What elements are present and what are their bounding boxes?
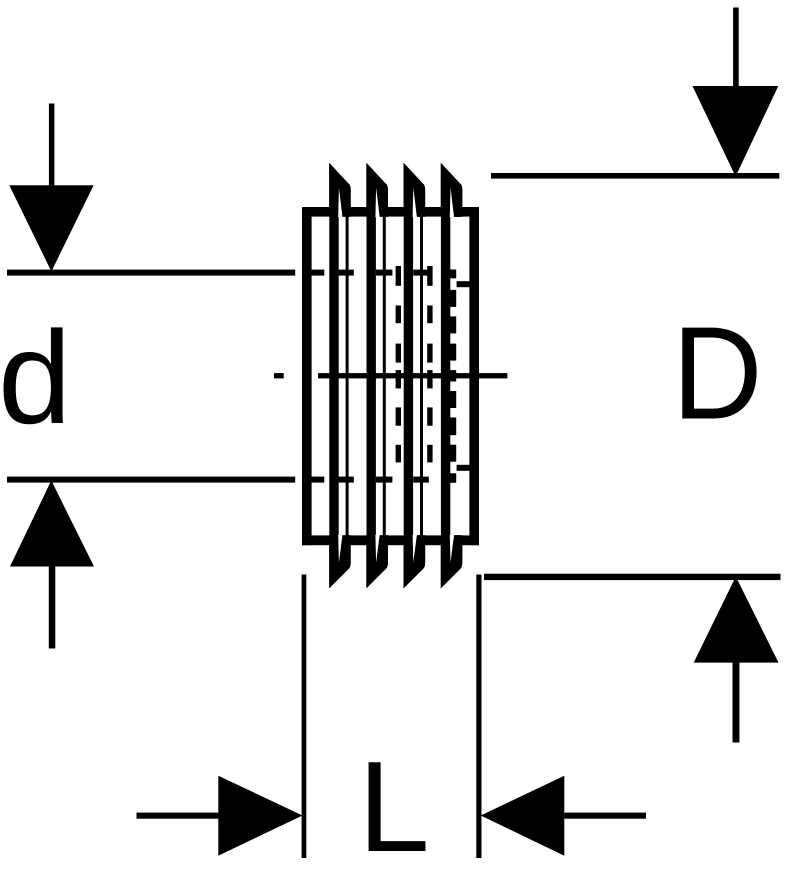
d line ticks top row (311, 270, 324, 276)
arrow d top (down) (49, 104, 55, 187)
arrow L right (left-pointing) (481, 776, 565, 856)
thread fin 2 bottom (366, 535, 388, 588)
thread crest bar 3 (404, 216, 413, 536)
thread fin 3 bottom (404, 535, 426, 588)
extension line L left (302, 575, 307, 859)
svg-text:L: L (358, 735, 430, 868)
internal thread step tick bottom right (457, 465, 470, 471)
arrow D top (down) (733, 8, 739, 88)
dimension line d bottom (7, 477, 295, 483)
thread crest bar 4 (441, 216, 450, 536)
thread fin 1 bottom (329, 535, 351, 588)
hidden internal thread line B (427, 266, 432, 286)
center line dash (274, 373, 284, 378)
internal thread step tick top right (457, 281, 470, 287)
thread root line 4 top segment (456, 196, 459, 217)
svg-text:d: d (0, 304, 71, 451)
thread root line 2 (383, 196, 386, 557)
hidden internal thread line C (450, 270, 456, 279)
arrow d bottom (up) (10, 481, 94, 567)
thread fin 2 top (366, 163, 388, 217)
thread crest bar 2 (367, 216, 376, 536)
thread fin 1 top (329, 163, 351, 217)
extension line L right (476, 575, 481, 859)
thread fin 3 top (404, 163, 426, 217)
dimension line d top (7, 270, 295, 276)
thread fin 4 bottom (441, 535, 463, 588)
svg-text:D: D (672, 300, 763, 447)
dimension line D bottom (484, 574, 781, 580)
thread root line 1 (346, 196, 349, 557)
dimension line D top (491, 173, 779, 179)
center line (318, 373, 507, 378)
thread root line 3 (420, 196, 423, 557)
hidden internal thread line A (396, 266, 401, 286)
arrow L left (right-pointing) (137, 813, 219, 819)
d line ticks bottom row (311, 477, 324, 483)
thread root line 4 bottom segment (456, 535, 459, 557)
arrow D bottom (up) (694, 577, 779, 663)
thread crest bar 1 (329, 216, 338, 536)
thread fin 4 top (441, 163, 463, 217)
body outline (302, 207, 479, 217)
